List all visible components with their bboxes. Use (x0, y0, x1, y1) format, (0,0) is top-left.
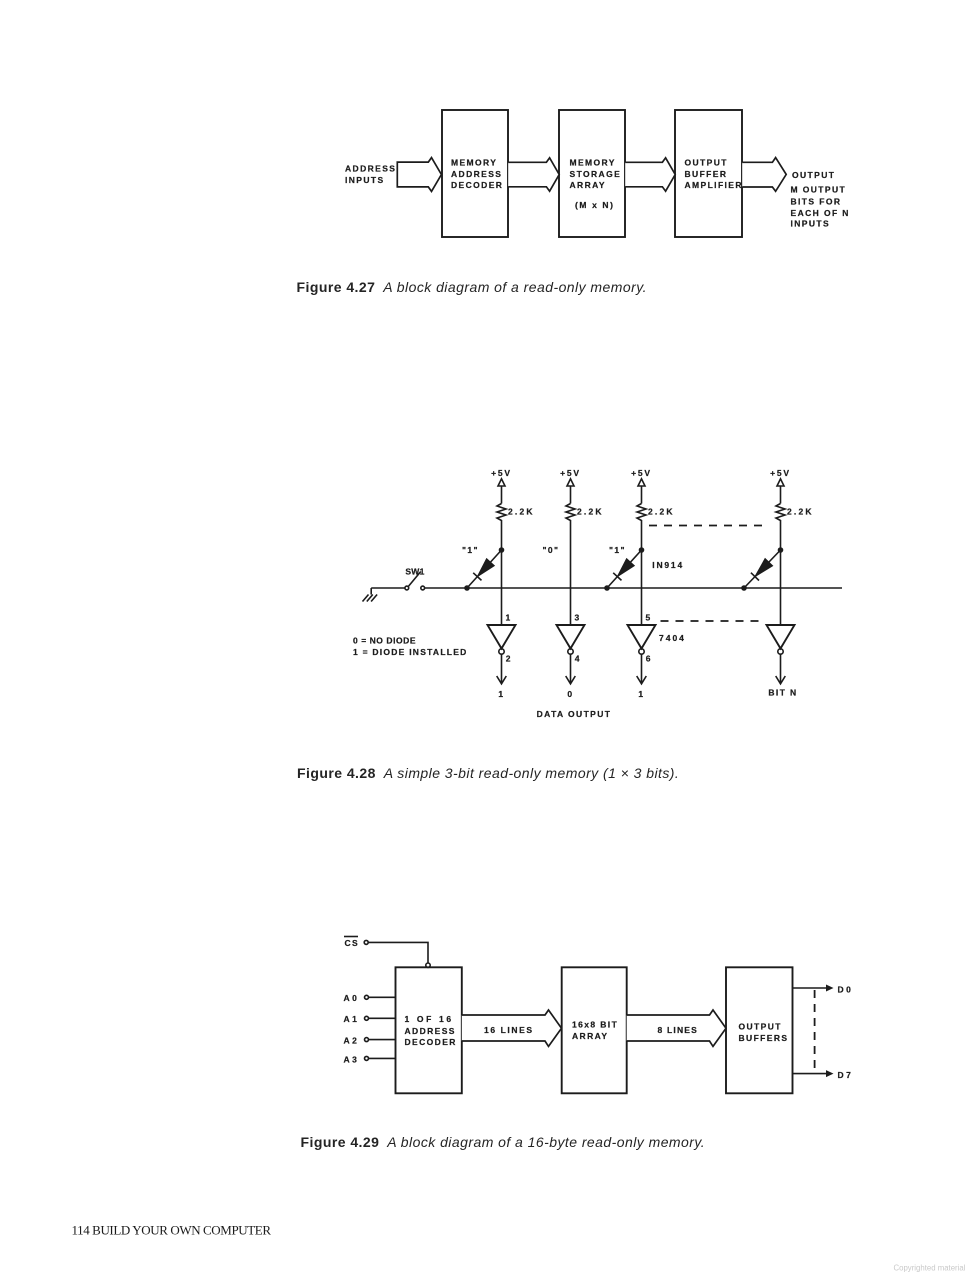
svg-text:6: 6 (646, 654, 652, 664)
+5V supply node column 3 (631, 468, 652, 504)
svg-text:M OUTPUT: M OUTPUT (791, 185, 847, 195)
node rail junction column 3 (639, 547, 645, 553)
svg-text:Copyrighted material: Copyrighted material (894, 1264, 965, 1273)
node bus junction column 1 (464, 585, 470, 591)
diode D2 IN914 column 3 (607, 550, 642, 588)
svg-text:+5V: +5V (770, 468, 791, 478)
dashed range line D0 to D7 (814, 990, 816, 1072)
svg-text:OUTPUT: OUTPUT (685, 158, 728, 168)
svg-text:ARRAY: ARRAY (570, 180, 606, 190)
svg-text:2.2K: 2.2K (508, 506, 535, 516)
ground (363, 588, 378, 602)
wire D0 output with arrow (793, 985, 834, 992)
svg-text:+5V: +5V (491, 468, 512, 478)
svg-text:ADDRESS: ADDRESS (405, 1026, 456, 1036)
wire inverter 3 output with arrow (637, 654, 647, 684)
+5V supply node column 4 (770, 468, 791, 504)
wire inverter 2 output with arrow (566, 654, 576, 684)
diode D3 column 4 (744, 550, 781, 588)
svg-text:8 LINES: 8 LINES (658, 1025, 699, 1035)
wire rail column 4 to inverter (780, 550, 782, 625)
block arrow address inputs (397, 158, 441, 192)
svg-text:A3: A3 (344, 1054, 360, 1064)
resistor R1 2.2K (497, 504, 535, 551)
svg-text:0 = NO DIODE: 0 = NO DIODE (353, 636, 416, 646)
svg-text:CS: CS (345, 938, 360, 948)
svg-text:D0: D0 (838, 985, 854, 995)
inverter U1B 7404 column 2 (557, 625, 585, 654)
svg-text:ARRAY: ARRAY (572, 1031, 608, 1041)
svg-text:4: 4 (575, 654, 581, 664)
svg-text:INPUTS: INPUTS (345, 175, 385, 185)
svg-text:3: 3 (575, 612, 581, 622)
block arrow 8 LINES (627, 1010, 726, 1046)
dashed continuation line lower (661, 620, 761, 622)
svg-text:Figure 4.28 A simple 3-bit rea: Figure 4.28 A simple 3-bit read-only mem… (297, 765, 679, 781)
svg-text:AMPLIFIER: AMPLIFIER (685, 180, 743, 190)
svg-text:(M x N): (M x N) (575, 200, 615, 210)
block MEMORY STORAGE ARRAY (559, 110, 625, 237)
svg-text:2.2K: 2.2K (577, 506, 604, 516)
inverter U1C 7404 column 3 (628, 625, 656, 654)
svg-text:DECODER: DECODER (405, 1037, 457, 1047)
svg-text:ADDRESS: ADDRESS (451, 169, 502, 179)
bubble active-low chip select (426, 963, 430, 967)
svg-text:1: 1 (498, 689, 504, 699)
wire rail column 1 to inverter (501, 550, 503, 625)
svg-text:BUFFERS: BUFFERS (739, 1033, 789, 1043)
label legend 0 = NO DIODE / 1 = DIODE INSTALLED (353, 636, 468, 657)
label OUTPUT, M OUTPUT BITS FOR EACH OF N INPUTS (791, 170, 850, 229)
svg-text:DATA OUTPUT: DATA OUTPUT (537, 709, 612, 719)
label ADDRESS INPUTS (345, 164, 396, 185)
svg-text:1: 1 (638, 689, 644, 699)
svg-text:A1: A1 (344, 1014, 360, 1024)
svg-text:Figure 4.29 A block diagram of: Figure 4.29 A block diagram of a 16-byte… (301, 1134, 706, 1150)
svg-text:SW1: SW1 (405, 567, 424, 577)
svg-text:"0": "0" (543, 545, 560, 555)
svg-text:7404: 7404 (659, 633, 686, 643)
block OUTPUT BUFFERS (726, 967, 793, 1093)
switch SW1 (405, 567, 425, 590)
block 1 OF 16 ADDRESS DECODER (396, 967, 462, 1093)
label CS with overline (344, 937, 359, 948)
svg-text:16x8 BIT: 16x8 BIT (572, 1019, 618, 1029)
wire CS to decoder (368, 942, 428, 963)
inverter U1A 7404 column 1 (488, 625, 516, 654)
svg-text:1 = DIODE INSTALLED: 1 = DIODE INSTALLED (353, 647, 468, 657)
dashed continuation line upper (649, 525, 767, 527)
node rail junction column 1 (499, 547, 505, 553)
svg-text:DECODER: DECODER (451, 180, 503, 190)
inverter U1D 7404 column 4 (767, 625, 795, 654)
svg-text:5: 5 (646, 612, 652, 622)
block arrow 16 LINES (462, 1010, 562, 1046)
block 16x8 BIT ARRAY (562, 967, 627, 1093)
svg-text:OUTPUT: OUTPUT (739, 1021, 782, 1031)
svg-text:16 LINES: 16 LINES (484, 1025, 534, 1035)
svg-text:EACH OF N: EACH OF N (791, 208, 850, 218)
terminal A0 (365, 995, 396, 999)
svg-text:A2: A2 (344, 1036, 360, 1046)
svg-text:2.2K: 2.2K (648, 506, 675, 516)
block OUTPUT BUFFER AMPLIFIER (675, 110, 743, 237)
svg-text:1 OF 16: 1 OF 16 (405, 1014, 454, 1024)
block arrow decoder to storage array (508, 158, 559, 191)
svg-text:1: 1 (506, 612, 512, 622)
terminal A1 (365, 1016, 396, 1020)
svg-text:D7: D7 (838, 1070, 854, 1080)
wire inverter 4 output with arrow (776, 654, 786, 684)
wire D7 output with arrow (793, 1070, 834, 1077)
node rail junction column 4 (778, 547, 784, 553)
svg-text:STORAGE: STORAGE (570, 169, 622, 179)
svg-text:0: 0 (567, 689, 573, 699)
resistor R4 2.2K (776, 504, 814, 551)
+5V supply node column 1 (491, 468, 512, 504)
terminal circle CS (364, 940, 368, 944)
svg-text:+5V: +5V (560, 468, 581, 478)
node bus junction column 3 (604, 585, 610, 591)
block MEMORY ADDRESS DECODER (442, 110, 508, 237)
svg-text:+5V: +5V (631, 468, 652, 478)
svg-text:INPUTS: INPUTS (791, 219, 831, 229)
svg-text:ADDRESS: ADDRESS (345, 164, 396, 174)
svg-text:BIT N: BIT N (768, 687, 797, 697)
svg-text:Figure 4.27 A block diagram of: Figure 4.27 A block diagram of a read-on… (297, 279, 647, 295)
svg-text:MEMORY: MEMORY (570, 158, 616, 168)
svg-text:BUFFER: BUFFER (685, 169, 728, 179)
svg-text:2.2K: 2.2K (787, 506, 814, 516)
+5V supply node column 2 (560, 468, 581, 504)
block arrow output (742, 158, 786, 192)
diode D1 IN914 column 1 (467, 550, 502, 588)
block arrow storage array to buffer (625, 158, 675, 191)
wire inverter 1 output with arrow (497, 654, 507, 684)
svg-text:IN914: IN914 (652, 560, 684, 570)
node bus junction column 4 (741, 585, 747, 591)
svg-text:114 BUILD YOUR OWN COMPUTER: 114 BUILD YOUR OWN COMPUTER (72, 1223, 272, 1238)
svg-text:BITS FOR: BITS FOR (791, 197, 842, 207)
terminal A2 (365, 1038, 396, 1042)
terminal A3 (365, 1056, 396, 1060)
svg-text:"1": "1" (462, 545, 479, 555)
wire rail column 3 to inverter (641, 550, 643, 625)
wire bus line (425, 587, 842, 589)
svg-text:"1": "1" (609, 545, 626, 555)
wire ground to switch (371, 587, 405, 589)
svg-text:MEMORY: MEMORY (451, 158, 497, 168)
svg-text:OUTPUT: OUTPUT (792, 170, 835, 180)
svg-text:2: 2 (506, 654, 512, 664)
resistor R2 2.2K (566, 504, 604, 626)
resistor R3 2.2K (637, 504, 675, 551)
svg-text:A0: A0 (344, 993, 360, 1003)
